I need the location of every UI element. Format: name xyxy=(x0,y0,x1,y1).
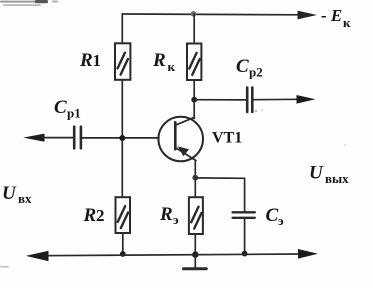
resistor R2 xyxy=(116,197,131,233)
node base junction xyxy=(119,135,125,141)
label -Ек xyxy=(321,6,351,30)
svg-text:э: э xyxy=(278,213,284,228)
node emitter junction xyxy=(192,175,198,181)
capacitor Cэ xyxy=(233,212,255,218)
svg-text:R: R xyxy=(152,50,166,71)
scan smudge top-left xyxy=(0,0,58,6)
label Uвых xyxy=(309,163,349,187)
wire collector node down to transistor xyxy=(193,100,195,119)
label Uвх xyxy=(2,183,32,206)
node Cэ bottom junction xyxy=(242,251,248,257)
label R1 xyxy=(79,50,101,71)
wire Rэ bottom lead xyxy=(194,234,196,255)
power arrow -Ек xyxy=(298,11,318,20)
label Cэ xyxy=(266,205,285,228)
node top rail junction xyxy=(191,11,197,17)
wire R2 bottom lead xyxy=(122,233,124,255)
svg-text:1: 1 xyxy=(93,51,102,70)
svg-text:VT1: VT1 xyxy=(212,130,242,147)
bottom rail right arrow xyxy=(298,249,318,259)
svg-text:вх: вх xyxy=(18,191,32,206)
label R2 xyxy=(83,205,105,226)
input arrow xyxy=(23,134,44,142)
svg-text:р1: р1 xyxy=(67,106,81,121)
node ground junction xyxy=(192,251,198,257)
wire emitter node to Cэ xyxy=(195,178,244,211)
resistor Rк xyxy=(187,44,201,81)
svg-text:U: U xyxy=(2,183,17,204)
label Cр1 xyxy=(54,97,81,121)
capacitor Cр1 xyxy=(74,127,81,149)
transistor VT1 xyxy=(158,117,203,162)
label Rк xyxy=(152,50,176,74)
wire emitter to node xyxy=(194,161,196,178)
wire input arrow to Cр1 xyxy=(42,137,73,139)
svg-text:C: C xyxy=(236,56,249,77)
svg-text:р2: р2 xyxy=(249,65,263,80)
svg-text:э: э xyxy=(173,212,179,227)
label VT1 xyxy=(212,130,242,147)
label Cр2 xyxy=(236,56,263,80)
label Rэ xyxy=(159,204,179,227)
wire Cр2 to output arrow xyxy=(254,98,300,100)
svg-text:к: к xyxy=(168,59,176,74)
scan specks xyxy=(0,109,346,268)
svg-text:R: R xyxy=(79,50,93,71)
wire Rк top lead xyxy=(193,14,195,44)
wire collector node to Cр2 xyxy=(194,99,246,101)
svg-text:к: к xyxy=(343,15,351,30)
svg-text:U: U xyxy=(309,163,324,184)
wire emitter node to Rэ xyxy=(194,178,196,198)
wire Cэ to bottom rail xyxy=(244,218,246,254)
svg-text:C: C xyxy=(54,97,67,118)
node R2 bottom junction xyxy=(120,251,126,257)
svg-text:вых: вых xyxy=(325,171,349,186)
svg-text:R: R xyxy=(159,204,173,225)
wire R1 to base node to R2 xyxy=(121,80,123,197)
resistor Rэ xyxy=(189,197,203,234)
bottom rail left arrow xyxy=(26,251,49,261)
wire Cр1 to transistor base xyxy=(82,137,159,139)
capacitor Cр2 xyxy=(247,88,252,112)
svg-text:- E: - E xyxy=(321,6,342,25)
wire bottom rail xyxy=(40,254,300,256)
node collector junction xyxy=(191,97,197,103)
wire Rк bottom lead to collector node xyxy=(193,80,195,100)
svg-text:C: C xyxy=(266,205,279,226)
output arrow xyxy=(297,95,316,104)
wire top rail xyxy=(122,14,300,44)
resistor R1 xyxy=(115,43,130,80)
svg-text:2: 2 xyxy=(96,206,105,225)
ground xyxy=(184,255,207,269)
svg-text:R: R xyxy=(83,205,97,226)
